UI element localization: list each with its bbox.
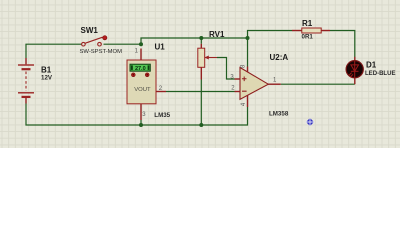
svg-text:SW1: SW1 [81, 26, 99, 35]
svg-text:U1: U1 [155, 42, 166, 51]
svg-text:VOUT: VOUT [134, 87, 151, 93]
svg-text:0R1: 0R1 [302, 33, 314, 40]
svg-text:LED-BLUE: LED-BLUE [365, 70, 396, 77]
svg-text:D1: D1 [366, 61, 377, 70]
svg-text:U2:A: U2:A [270, 53, 289, 62]
svg-text:R1: R1 [302, 19, 313, 28]
svg-text:SW-SPST-MOM: SW-SPST-MOM [80, 49, 123, 55]
svg-text:LM358: LM358 [269, 111, 289, 118]
svg-text:27.0: 27.0 [135, 66, 146, 72]
svg-text:12V: 12V [41, 75, 53, 82]
svg-text:LM35: LM35 [154, 112, 170, 119]
svg-text:B1: B1 [41, 66, 52, 75]
svg-text:RV1: RV1 [209, 30, 225, 39]
